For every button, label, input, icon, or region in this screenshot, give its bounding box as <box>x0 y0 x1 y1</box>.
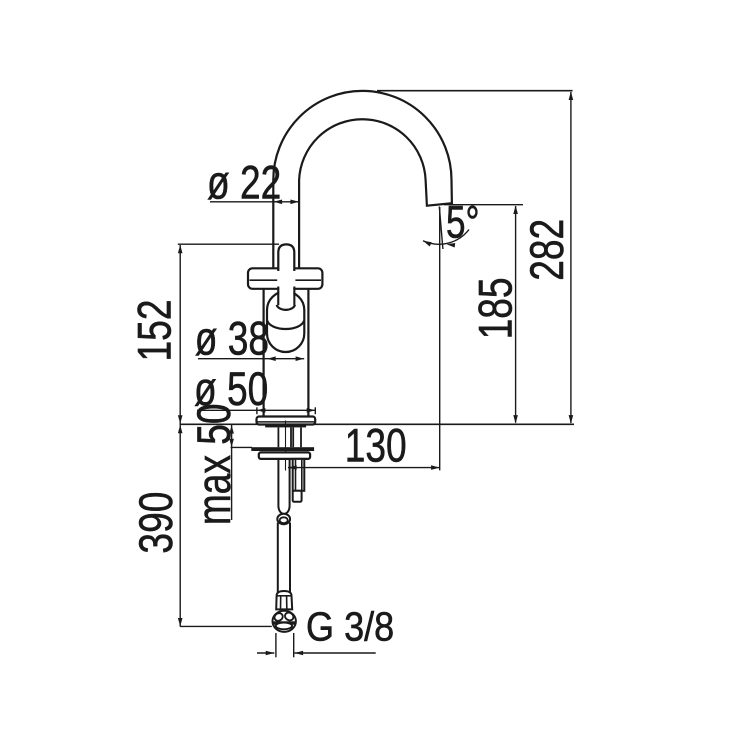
svg-text:5°: 5° <box>446 196 480 247</box>
svg-text:ø 38: ø 38 <box>195 312 269 364</box>
svg-text:G 3/8: G 3/8 <box>306 604 394 650</box>
svg-text:max 50: max 50 <box>188 403 240 525</box>
svg-text:282: 282 <box>521 219 573 281</box>
svg-text:ø 22: ø 22 <box>207 156 281 208</box>
svg-text:130: 130 <box>345 419 407 471</box>
svg-text:152: 152 <box>128 300 180 362</box>
svg-text:390: 390 <box>130 492 182 554</box>
svg-text:185: 185 <box>469 277 521 339</box>
